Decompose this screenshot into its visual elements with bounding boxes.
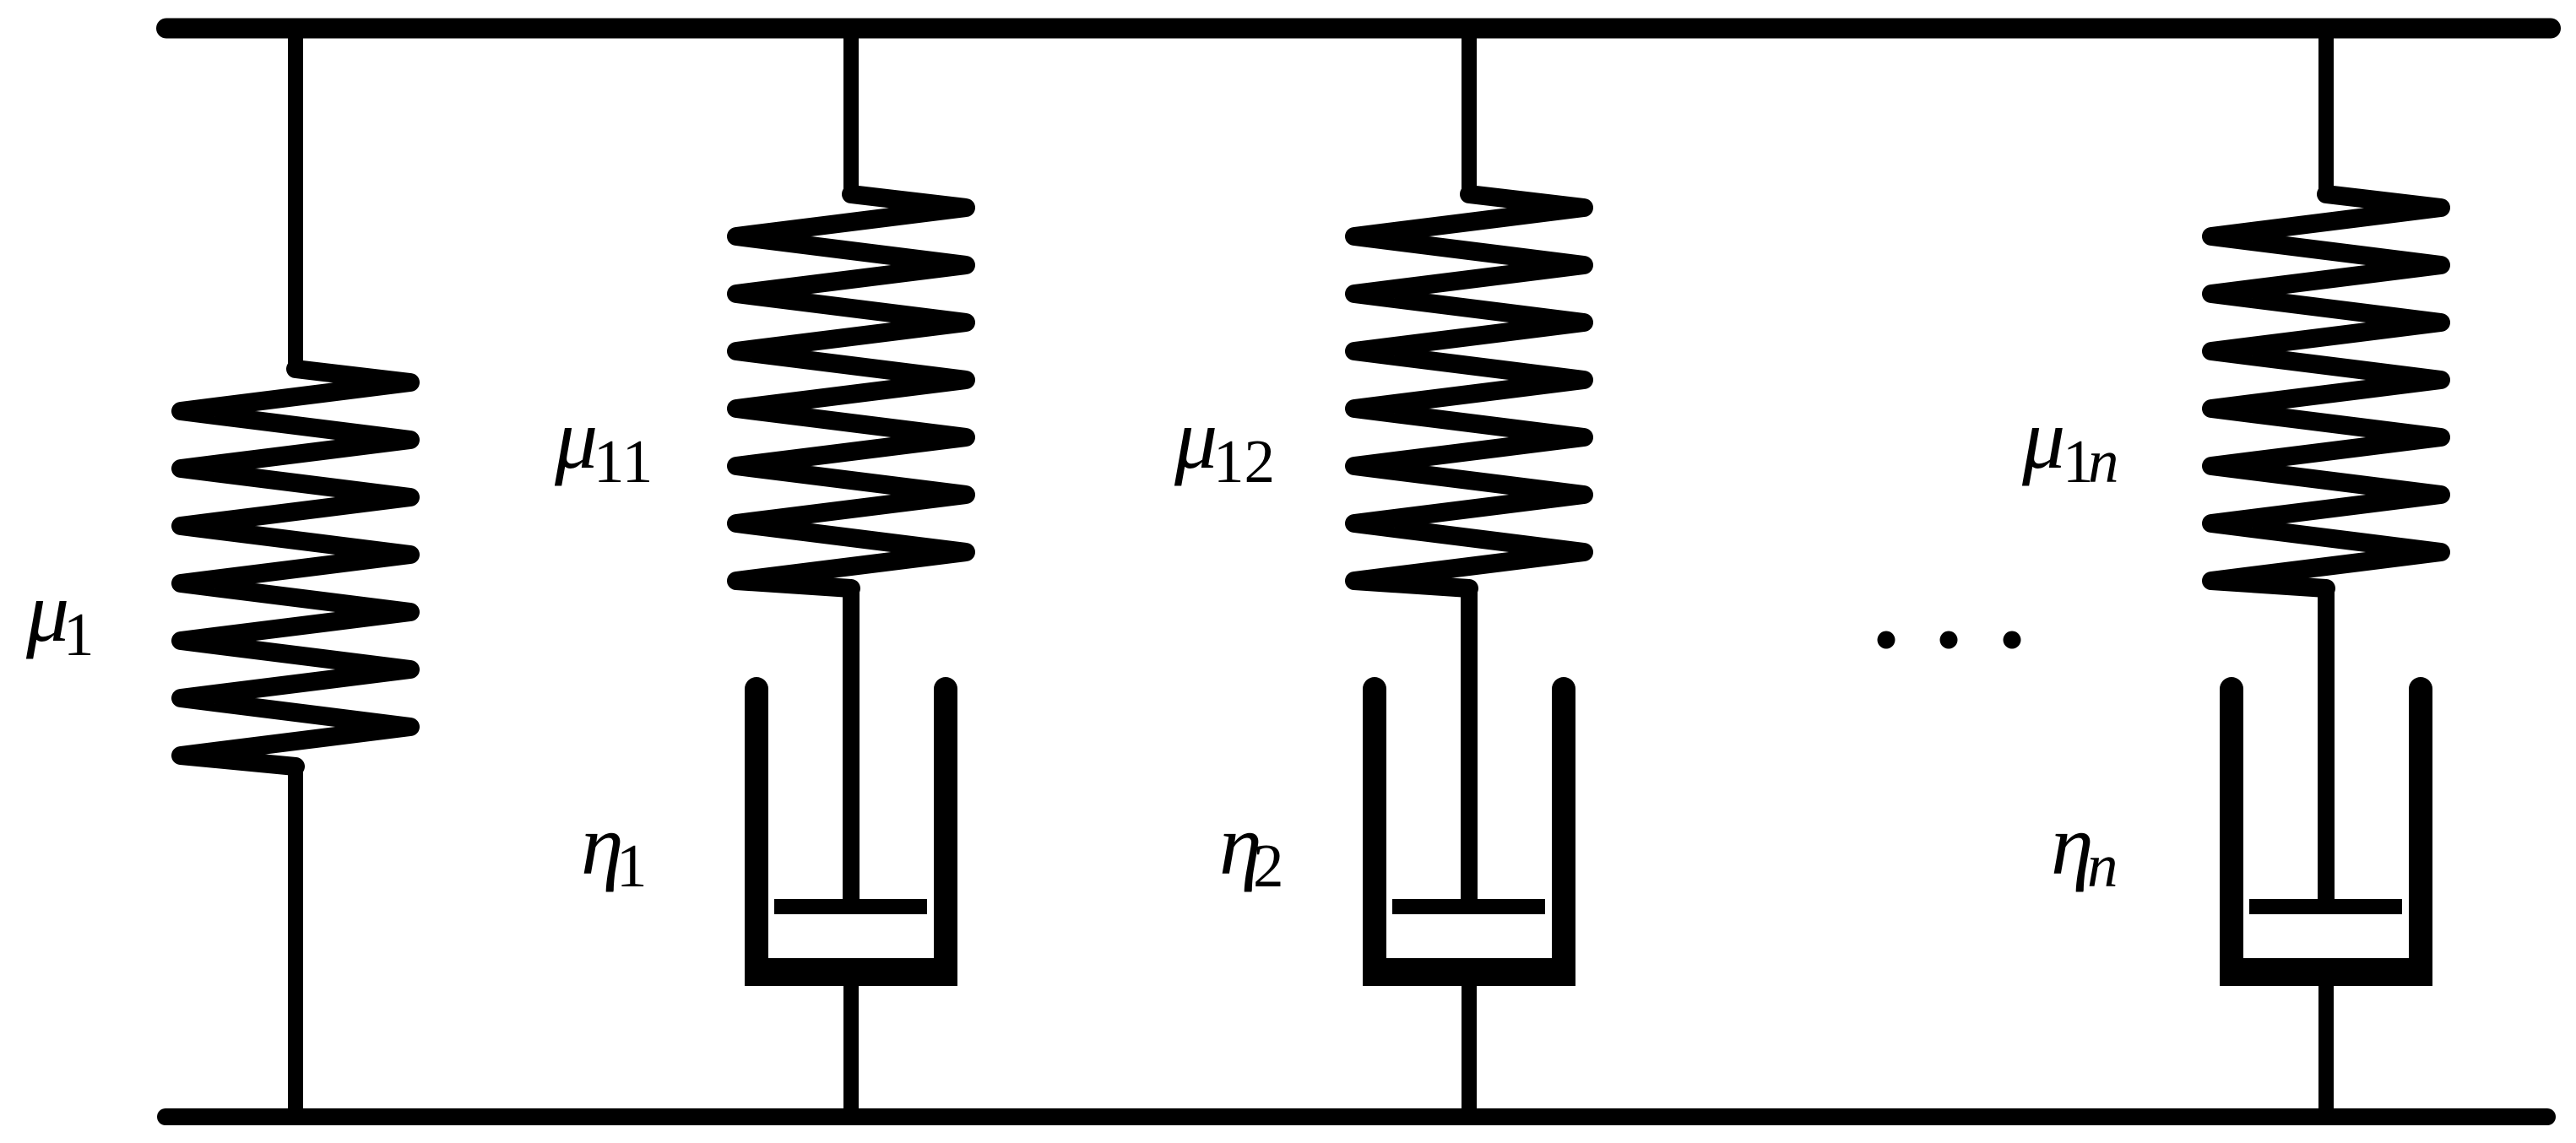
dashpot &#951;1 cylinder left wall bbox=[745, 689, 768, 971]
dashpot &#951;1 cylinder right wall bbox=[934, 689, 957, 971]
dashpot &#951;n cylinder left wall bbox=[2220, 689, 2243, 971]
wire: dashpot &#951;n bottom lead bbox=[2318, 975, 2334, 1117]
wire: branch rod from spring &#951; down into dashpot bbox=[843, 588, 860, 910]
wire: branch 1 bottom lead bbox=[288, 765, 303, 1117]
svg-text:μ: μ bbox=[1174, 392, 1217, 487]
svg-text:μ: μ bbox=[2021, 392, 2065, 487]
svg-text:n: n bbox=[2087, 832, 2118, 900]
dashpot &#951;2 cylinder bottom bbox=[1363, 958, 1575, 986]
wire: branch 4 top lead bbox=[2318, 20, 2334, 196]
dashpot &#951;n piston plate bbox=[2249, 899, 2402, 914]
svg-text:μ: μ bbox=[554, 392, 598, 487]
svg-text:11: 11 bbox=[594, 427, 653, 496]
svg-text:n: n bbox=[2088, 427, 2119, 496]
bottom rigid bar bbox=[165, 1108, 2547, 1125]
wire: dashpot &#951;1 bottom lead bbox=[843, 975, 859, 1117]
ellipsis dots between branch 3 and branch 4 bbox=[1878, 631, 2021, 649]
dashpot &#951;2 piston plate bbox=[1392, 899, 1545, 914]
spring mu_11 bbox=[736, 194, 966, 588]
wire: branch 3 top lead bbox=[1462, 20, 1477, 196]
wire: branch 1 top lead bbox=[288, 20, 303, 371]
dashpot &#951;1 piston plate bbox=[774, 899, 927, 914]
svg-text:2: 2 bbox=[1253, 832, 1284, 900]
dashpot &#951;1 cylinder bottom bbox=[745, 958, 957, 986]
spring mu_1 bbox=[181, 369, 410, 767]
top rigid bar bbox=[166, 19, 2551, 39]
spring mu_12 bbox=[1354, 194, 1584, 588]
wire: dashpot &#951;2 bottom lead bbox=[1462, 975, 1477, 1117]
spring mu_1n bbox=[2211, 194, 2441, 588]
wire: branch rod from spring &#951; down into dashpot bbox=[1461, 588, 1478, 910]
dashpot &#951;2 cylinder right wall bbox=[1552, 689, 1575, 971]
wire: branch 2 top lead bbox=[843, 20, 859, 196]
svg-text:1: 1 bbox=[616, 832, 648, 900]
dashpot &#951;n cylinder bottom bbox=[2220, 958, 2432, 986]
svg-text:1: 1 bbox=[63, 600, 95, 669]
dashpot &#951;n cylinder right wall bbox=[2409, 689, 2432, 971]
svg-text:12: 12 bbox=[1213, 427, 1275, 496]
dashpot &#951;2 cylinder left wall bbox=[1363, 689, 1386, 971]
wire: branch rod from spring &#951; down into dashpot bbox=[2318, 588, 2335, 910]
